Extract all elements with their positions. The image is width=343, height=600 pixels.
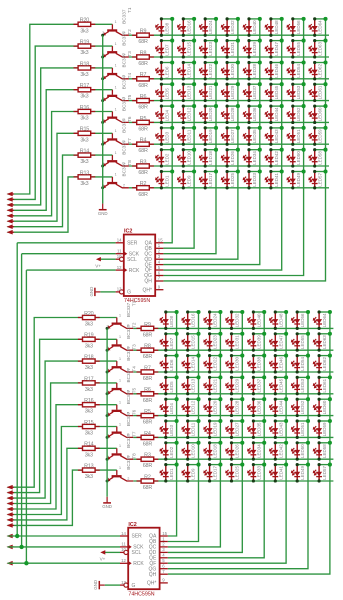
resistor R7 68R (top block) bbox=[132, 72, 154, 89]
svg-text:3k3: 3k3 bbox=[85, 474, 93, 480]
svg-text:T8: T8 bbox=[127, 160, 132, 166]
svg-text:LED52: LED52 bbox=[296, 107, 301, 121]
LED LED47 (bottom block) bbox=[269, 332, 288, 352]
LED LED37 (top block) bbox=[243, 82, 262, 102]
LED LED24 (top block) bbox=[199, 17, 218, 37]
svg-text:LED49: LED49 bbox=[296, 172, 301, 186]
svg-text:3k3: 3k3 bbox=[80, 28, 88, 34]
svg-text:GND: GND bbox=[98, 211, 108, 216]
LED LED55 (top block) bbox=[286, 39, 305, 59]
LED LED15 (bottom block) bbox=[181, 332, 200, 352]
LED LED55 (bottom block) bbox=[291, 332, 310, 352]
svg-text:LED32: LED32 bbox=[235, 313, 240, 327]
svg-text:LED49: LED49 bbox=[300, 466, 305, 480]
wire: row bus 5 (bottom block) bbox=[133, 415, 333, 417]
LED LED27 (bottom block) bbox=[225, 419, 244, 439]
resistor R5 68R (bottom block) bbox=[137, 409, 159, 426]
svg-text:LED60: LED60 bbox=[318, 107, 323, 121]
svg-text:LED31: LED31 bbox=[230, 42, 235, 56]
svg-text:R3: R3 bbox=[140, 159, 147, 165]
svg-text:LED46: LED46 bbox=[278, 357, 283, 371]
transistor T2 BC337 (bottom block) bbox=[106, 322, 137, 352]
wire: column 3 to QC (top block) bbox=[163, 19, 216, 254]
transistor T4 BC337 (top block) bbox=[101, 73, 132, 103]
svg-text:LED44: LED44 bbox=[274, 107, 279, 121]
svg-text:3k3: 3k3 bbox=[80, 50, 88, 56]
svg-text:R17: R17 bbox=[84, 376, 93, 382]
LED LED7 (top block) bbox=[155, 39, 174, 59]
connector arrow row 2 (bottom block) bbox=[7, 490, 15, 495]
svg-text:68R: 68R bbox=[138, 105, 148, 111]
wire: input row 7 to base resistor (bottom block) bbox=[8, 448, 117, 520]
svg-text:R7: R7 bbox=[144, 365, 151, 371]
ground GND (bottom block, emitter rail) bbox=[102, 497, 112, 509]
svg-text:R4: R4 bbox=[144, 431, 151, 437]
wire: input row 4 to base resistor (top block) bbox=[8, 90, 113, 211]
svg-text:LED12: LED12 bbox=[191, 400, 196, 414]
LED LED41 (bottom block) bbox=[269, 463, 288, 483]
svg-text:R6: R6 bbox=[144, 387, 151, 393]
svg-text:LED6: LED6 bbox=[169, 359, 174, 371]
LED LED47 (top block) bbox=[265, 39, 284, 59]
svg-text:T2: T2 bbox=[127, 29, 132, 35]
wire: column 1 to QA (bottom block) bbox=[168, 312, 177, 536]
LED LED18 (bottom block) bbox=[203, 441, 222, 461]
LED LED30 (bottom block) bbox=[225, 354, 244, 374]
LED LED32 (bottom block) bbox=[225, 310, 244, 330]
LED LED61 (bottom block) bbox=[313, 375, 332, 395]
svg-text:LED43: LED43 bbox=[274, 129, 279, 143]
resistor R18 3k3 (top block) bbox=[74, 61, 96, 78]
LED LED33 (top block) bbox=[243, 169, 262, 189]
wire: row bus 8 (bottom block) bbox=[133, 480, 333, 482]
LED LED40 (bottom block) bbox=[247, 310, 266, 330]
LED LED17 (bottom block) bbox=[203, 463, 222, 483]
svg-text:LED58: LED58 bbox=[318, 151, 323, 165]
resistor R19 3k3 (bottom block) bbox=[78, 333, 100, 350]
svg-text:BC337: BC337 bbox=[126, 411, 131, 426]
LED LED4 (top block) bbox=[155, 104, 174, 124]
svg-text:LED37: LED37 bbox=[252, 85, 257, 99]
resistor R3 68R (bottom block) bbox=[137, 453, 159, 470]
svg-text:T5: T5 bbox=[127, 94, 132, 100]
wire: row bus 7 (top block) bbox=[129, 165, 329, 167]
svg-text:LED23: LED23 bbox=[213, 335, 218, 349]
svg-text:68R: 68R bbox=[143, 354, 153, 360]
svg-text:R17: R17 bbox=[80, 83, 89, 89]
LED LED37 (bottom block) bbox=[247, 375, 266, 395]
LED LED27 (top block) bbox=[221, 126, 240, 146]
resistor R2 68R (bottom block) bbox=[137, 474, 159, 491]
svg-text:LED45: LED45 bbox=[278, 378, 283, 392]
LED LED64 (bottom block) bbox=[313, 310, 332, 330]
LED LED19 (top block) bbox=[199, 126, 218, 146]
svg-text:R6: R6 bbox=[140, 94, 147, 100]
LED LED23 (bottom block) bbox=[203, 332, 222, 352]
resistor R9 68R (top block) bbox=[132, 29, 154, 46]
svg-text:R4: R4 bbox=[140, 138, 147, 144]
svg-text:LED26: LED26 bbox=[235, 444, 240, 458]
svg-text:LED7: LED7 bbox=[164, 44, 169, 56]
wire: column 8 to QH (top block) bbox=[163, 19, 325, 281]
LED LED41 (top block) bbox=[265, 169, 284, 189]
LED LED45 (bottom block) bbox=[269, 375, 288, 395]
wire: input row 3 to base resistor (bottom block) bbox=[8, 361, 117, 498]
LED LED4 (bottom block) bbox=[159, 397, 178, 417]
svg-text:LED10: LED10 bbox=[191, 444, 196, 458]
svg-text:R3: R3 bbox=[144, 453, 151, 459]
junction: RCK bus node bbox=[24, 561, 28, 565]
LED LED3 (top block) bbox=[155, 126, 174, 146]
LED LED56 (bottom block) bbox=[291, 310, 310, 330]
resistor R14 3k3 (bottom block) bbox=[78, 442, 100, 459]
LED LED56 (top block) bbox=[286, 17, 305, 37]
resistor R20 3k3 (bottom block) bbox=[78, 311, 100, 328]
resistor R4 68R (bottom block) bbox=[137, 431, 159, 448]
resistor R14 3k3 (top block) bbox=[74, 149, 96, 166]
svg-text:LED5: LED5 bbox=[164, 88, 169, 100]
svg-text:R18: R18 bbox=[80, 61, 89, 67]
svg-text:68R: 68R bbox=[143, 463, 153, 469]
wire: GND to G pin (bottom block) bbox=[105, 584, 120, 586]
svg-text:LED38: LED38 bbox=[252, 63, 257, 77]
resistor R9 68R (bottom block) bbox=[137, 322, 159, 339]
svg-text:LED8: LED8 bbox=[169, 315, 174, 327]
svg-text:68R: 68R bbox=[143, 376, 153, 382]
svg-text:3k3: 3k3 bbox=[85, 365, 93, 371]
wire: column 2 to QB (bottom block) bbox=[168, 312, 199, 542]
LED LED14 (bottom block) bbox=[181, 354, 200, 374]
svg-text:LED20: LED20 bbox=[208, 107, 213, 121]
LED LED23 (top block) bbox=[199, 39, 218, 59]
svg-text:LED2: LED2 bbox=[169, 446, 174, 458]
resistor R8 68R (bottom block) bbox=[137, 344, 159, 361]
svg-text:LED17: LED17 bbox=[208, 172, 213, 186]
LED LED1 (top block) bbox=[155, 169, 174, 189]
svg-text:R2: R2 bbox=[144, 474, 151, 480]
svg-text:LED33: LED33 bbox=[256, 466, 261, 480]
svg-text:LED57: LED57 bbox=[322, 466, 327, 480]
svg-text:LED44: LED44 bbox=[278, 400, 283, 414]
svg-text:BC337: BC337 bbox=[122, 75, 127, 90]
svg-text:LED22: LED22 bbox=[208, 63, 213, 77]
svg-text:LED1: LED1 bbox=[164, 175, 169, 187]
svg-text:68R: 68R bbox=[138, 148, 148, 154]
LED LED34 (bottom block) bbox=[247, 441, 266, 461]
transistor T4 BC337 (bottom block) bbox=[106, 366, 137, 396]
svg-text:LED23: LED23 bbox=[208, 42, 213, 56]
svg-text:3k3: 3k3 bbox=[85, 409, 93, 415]
svg-text:LED35: LED35 bbox=[252, 129, 257, 143]
wire: SER bus to IC2 pin 14 (top block) bbox=[17, 242, 115, 244]
svg-text:LED27: LED27 bbox=[230, 129, 235, 143]
resistor R8 68R (top block) bbox=[132, 50, 154, 67]
wire: input row 5 to base resistor (bottom block) bbox=[8, 405, 117, 509]
connector arrow row 5 (bottom block) bbox=[7, 507, 15, 512]
svg-text:GND: GND bbox=[102, 504, 112, 509]
resistor R20 3k3 (top block) bbox=[74, 18, 96, 35]
transistor T7 BC337 (top block) bbox=[101, 138, 132, 168]
supply V+ on SCL pin (top block) bbox=[95, 257, 115, 268]
LED LED29 (bottom block) bbox=[225, 375, 244, 395]
svg-text:LED16: LED16 bbox=[186, 20, 191, 34]
svg-text:R14: R14 bbox=[84, 442, 93, 448]
svg-text:T6: T6 bbox=[131, 409, 136, 415]
svg-text:LED48: LED48 bbox=[278, 313, 283, 327]
wire: input row 8 to base resistor (bottom block) bbox=[8, 470, 117, 525]
wire: row bus 4 (bottom block) bbox=[133, 393, 333, 395]
transistor T5 BC337 (bottom block) bbox=[106, 388, 137, 418]
svg-text:R20: R20 bbox=[80, 18, 89, 24]
svg-text:LED48: LED48 bbox=[274, 20, 279, 34]
svg-text:LED52: LED52 bbox=[300, 400, 305, 414]
svg-text:R16: R16 bbox=[84, 398, 93, 404]
svg-text:LED58: LED58 bbox=[322, 444, 327, 458]
svg-text:LED32: LED32 bbox=[230, 20, 235, 34]
wire: row bus 8 (top block) bbox=[129, 187, 329, 189]
svg-text:T1: T1 bbox=[127, 7, 132, 13]
svg-text:68R: 68R bbox=[138, 126, 148, 132]
wire: input row 4 to base resistor (bottom block) bbox=[8, 383, 117, 504]
svg-text:LED54: LED54 bbox=[300, 357, 305, 371]
svg-text:3k3: 3k3 bbox=[85, 452, 93, 458]
svg-text:68R: 68R bbox=[138, 39, 148, 45]
svg-text:3k3: 3k3 bbox=[80, 72, 88, 78]
LED LED53 (bottom block) bbox=[291, 375, 310, 395]
resistor R13 3k3 (top block) bbox=[74, 170, 96, 187]
LED LED31 (top block) bbox=[221, 39, 240, 59]
LED LED42 (bottom block) bbox=[269, 441, 288, 461]
resistor R15 3k3 (bottom block) bbox=[78, 420, 100, 437]
svg-text:LED15: LED15 bbox=[191, 335, 196, 349]
transistor T7 BC337 (bottom block) bbox=[106, 431, 137, 461]
svg-text:LED60: LED60 bbox=[322, 400, 327, 414]
svg-text:3k3: 3k3 bbox=[80, 159, 88, 165]
LED LED53 (top block) bbox=[286, 82, 305, 102]
LED LED63 (top block) bbox=[308, 39, 327, 59]
svg-text:LED57: LED57 bbox=[318, 172, 323, 186]
svg-text:LED7: LED7 bbox=[169, 337, 174, 349]
transistor T1 BC337 (bottom block) bbox=[106, 300, 137, 330]
svg-text:T2: T2 bbox=[131, 322, 136, 328]
connector arrow row 5 (top block) bbox=[7, 214, 15, 219]
transistor T3 BC337 (top block) bbox=[101, 51, 132, 81]
connector arrow SER (bottom block) bbox=[7, 534, 15, 539]
LED LED21 (top block) bbox=[199, 82, 218, 102]
svg-text:BC337: BC337 bbox=[126, 433, 131, 448]
svg-text:LED18: LED18 bbox=[213, 444, 218, 458]
svg-text:3k3: 3k3 bbox=[85, 431, 93, 437]
svg-text:LED61: LED61 bbox=[318, 85, 323, 99]
LED LED34 (top block) bbox=[243, 148, 262, 168]
LED LED52 (top block) bbox=[286, 104, 305, 124]
wire: emitter rail to GND (bottom block) bbox=[106, 328, 108, 496]
wire: input row 8 to base resistor (top block) bbox=[8, 177, 113, 232]
svg-text:LED24: LED24 bbox=[213, 313, 218, 327]
svg-text:BC337: BC337 bbox=[126, 346, 131, 361]
wire: input row 6 to base resistor (bottom block) bbox=[8, 427, 117, 515]
svg-text:LED6: LED6 bbox=[164, 66, 169, 78]
svg-text:68R: 68R bbox=[143, 441, 153, 447]
LED LED63 (bottom block) bbox=[313, 332, 332, 352]
svg-text:LED28: LED28 bbox=[235, 400, 240, 414]
LED LED9 (top block) bbox=[177, 169, 196, 189]
svg-text:LED9: LED9 bbox=[191, 468, 196, 480]
svg-text:LED19: LED19 bbox=[208, 129, 213, 143]
svg-text:LED35: LED35 bbox=[256, 422, 261, 436]
svg-text:R5: R5 bbox=[144, 409, 151, 415]
svg-text:LED40: LED40 bbox=[256, 313, 261, 327]
svg-text:LED34: LED34 bbox=[252, 151, 257, 165]
LED LED44 (bottom block) bbox=[269, 397, 288, 417]
LED LED28 (bottom block) bbox=[225, 397, 244, 417]
svg-text:68R: 68R bbox=[143, 332, 153, 338]
resistor R5 68R (top block) bbox=[132, 116, 154, 133]
resistor R2 68R (top block) bbox=[132, 181, 154, 198]
svg-text:68R: 68R bbox=[138, 192, 148, 198]
LED LED19 (bottom block) bbox=[203, 419, 222, 439]
svg-text:LED31: LED31 bbox=[235, 335, 240, 349]
svg-text:LED41: LED41 bbox=[278, 466, 283, 480]
resistor R15 3k3 (top block) bbox=[74, 127, 96, 144]
resistor R6 68R (top block) bbox=[132, 94, 154, 111]
LED LED38 (bottom block) bbox=[247, 354, 266, 374]
svg-text:LED51: LED51 bbox=[296, 129, 301, 143]
svg-text:T4: T4 bbox=[131, 366, 136, 372]
LED LED11 (top block) bbox=[177, 126, 196, 146]
svg-text:LED10: LED10 bbox=[186, 151, 191, 165]
svg-text:LED25: LED25 bbox=[230, 172, 235, 186]
svg-text:LED12: LED12 bbox=[186, 107, 191, 121]
LED LED17 (top block) bbox=[199, 169, 218, 189]
LED LED6 (top block) bbox=[155, 60, 174, 80]
transistor T3 BC337 (bottom block) bbox=[106, 344, 137, 374]
connector arrow row 7 (top block) bbox=[7, 224, 15, 229]
svg-text:LED34: LED34 bbox=[256, 444, 261, 458]
connector arrow RCK (bottom block) bbox=[7, 561, 15, 566]
wire: input row 3 to base resistor (top block) bbox=[8, 68, 113, 205]
wire: row bus 7 (bottom block) bbox=[133, 458, 333, 460]
svg-text:LED1: LED1 bbox=[169, 468, 174, 480]
svg-text:LED59: LED59 bbox=[322, 422, 327, 436]
svg-text:LED13: LED13 bbox=[191, 378, 196, 392]
LED LED35 (bottom block) bbox=[247, 419, 266, 439]
svg-text:LED28: LED28 bbox=[230, 107, 235, 121]
svg-text:LED18: LED18 bbox=[208, 151, 213, 165]
junction: SCK bus node bbox=[19, 545, 23, 549]
svg-text:LED26: LED26 bbox=[230, 151, 235, 165]
svg-text:LED53: LED53 bbox=[296, 85, 301, 99]
junction: SER bus node bbox=[15, 534, 19, 538]
LED LED49 (top block) bbox=[286, 169, 305, 189]
ground GND on G pin (top block) bbox=[89, 287, 101, 297]
LED LED16 (top block) bbox=[177, 17, 196, 37]
wire: column 7 to QG (bottom block) bbox=[168, 312, 308, 569]
svg-text:LED45: LED45 bbox=[274, 85, 279, 99]
IC IC2 74HC595N (bottom block) bbox=[120, 522, 168, 597]
svg-text:LED8: LED8 bbox=[164, 22, 169, 34]
svg-text:LED42: LED42 bbox=[278, 444, 283, 458]
LED LED20 (bottom block) bbox=[203, 397, 222, 417]
wire: emitter rail to GND (top block) bbox=[102, 35, 104, 203]
svg-text:LED41: LED41 bbox=[274, 172, 279, 186]
LED LED13 (bottom block) bbox=[181, 375, 200, 395]
svg-text:LED55: LED55 bbox=[296, 42, 301, 56]
svg-text:LED16: LED16 bbox=[191, 313, 196, 327]
svg-text:BC337: BC337 bbox=[122, 9, 127, 24]
svg-text:LED17: LED17 bbox=[213, 466, 218, 480]
svg-text:LED62: LED62 bbox=[318, 63, 323, 77]
wire: row bus 3 (bottom block) bbox=[133, 371, 333, 373]
svg-text:3k3: 3k3 bbox=[80, 116, 88, 122]
LED LED39 (bottom block) bbox=[247, 332, 266, 352]
wire: row bus 3 (top block) bbox=[129, 78, 329, 80]
transistor T6 BC337 (top block) bbox=[101, 116, 132, 146]
svg-text:R2: R2 bbox=[140, 181, 147, 187]
LED LED12 (top block) bbox=[177, 104, 196, 124]
svg-text:LED14: LED14 bbox=[186, 63, 191, 77]
svg-text:LED50: LED50 bbox=[296, 151, 301, 165]
svg-text:LED4: LED4 bbox=[169, 403, 174, 415]
wire: row bus 2 (top block) bbox=[129, 56, 329, 58]
LED LED36 (top block) bbox=[243, 104, 262, 124]
svg-text:LED63: LED63 bbox=[318, 42, 323, 56]
LED LED2 (bottom block) bbox=[159, 441, 178, 461]
LED LED60 (top block) bbox=[308, 104, 327, 124]
wire: row bus 6 (bottom block) bbox=[133, 436, 333, 438]
svg-text:BC337: BC337 bbox=[126, 390, 131, 405]
resistor R3 68R (top block) bbox=[132, 159, 154, 176]
svg-text:LED43: LED43 bbox=[278, 422, 283, 436]
resistor R7 68R (bottom block) bbox=[137, 365, 159, 382]
svg-text:R8: R8 bbox=[144, 344, 151, 350]
LED LED52 (bottom block) bbox=[291, 397, 310, 417]
svg-text:T4: T4 bbox=[127, 73, 132, 79]
supply V+ on SCL pin (bottom block) bbox=[100, 550, 120, 561]
svg-text:3k3: 3k3 bbox=[85, 322, 93, 328]
svg-text:LED20: LED20 bbox=[213, 400, 218, 414]
wire: column 6 to QF (bottom block) bbox=[168, 312, 286, 563]
resistor R19 3k3 (top block) bbox=[74, 40, 96, 57]
wire: input row 6 to base resistor (top block) bbox=[8, 133, 113, 221]
LED LED57 (bottom block) bbox=[313, 463, 332, 483]
LED LED42 (top block) bbox=[265, 148, 284, 168]
resistor R16 3k3 (top block) bbox=[74, 105, 96, 122]
svg-text:68R: 68R bbox=[138, 61, 148, 67]
LED LED10 (top block) bbox=[177, 148, 196, 168]
connector arrow row 2 (top block) bbox=[7, 197, 15, 202]
LED LED22 (bottom block) bbox=[203, 354, 222, 374]
wire: SCK bus to IC2 pin 11 (top block) bbox=[22, 253, 116, 255]
transistor T1 BC337 (top block) bbox=[101, 7, 132, 37]
connector arrow row 6 (top block) bbox=[7, 219, 15, 224]
svg-text:LED63: LED63 bbox=[322, 335, 327, 349]
svg-text:LED14: LED14 bbox=[191, 357, 196, 371]
LED LED62 (top block) bbox=[308, 60, 327, 80]
wire: row bus 2 (bottom block) bbox=[133, 349, 333, 351]
svg-text:LED11: LED11 bbox=[186, 129, 191, 143]
wire: SCK bus vertical bbox=[21, 254, 23, 547]
LED LED58 (bottom block) bbox=[313, 441, 332, 461]
wire: GND to G pin (top block) bbox=[100, 291, 115, 293]
LED LED13 (top block) bbox=[177, 82, 196, 102]
LED LED46 (bottom block) bbox=[269, 354, 288, 374]
LED LED18 (top block) bbox=[199, 148, 218, 168]
svg-text:R13: R13 bbox=[84, 464, 93, 470]
wire: input row 1 to base resistor (top block) bbox=[8, 24, 113, 194]
svg-text:LED15: LED15 bbox=[186, 42, 191, 56]
svg-text:GND: GND bbox=[89, 287, 94, 297]
